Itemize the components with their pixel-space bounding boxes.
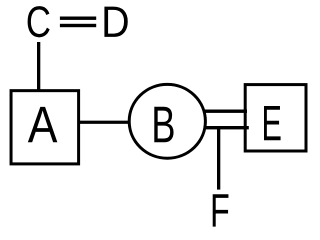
bond C-D top bar — [60, 17, 96, 20]
label E — [264, 106, 281, 140]
node E box — [245, 85, 306, 151]
wire A-B — [78, 121, 132, 124]
label D — [104, 7, 127, 37]
wire B-F — [217, 127, 220, 190]
wire B-E double bond top bar — [200, 110, 247, 113]
label B — [154, 107, 173, 143]
label A — [28, 107, 57, 142]
node B circle — [129, 84, 205, 158]
wire B-E double bond bottom bar — [200, 126, 249, 129]
label C — [28, 6, 50, 37]
node A box — [11, 91, 79, 164]
bond C-D bottom bar — [60, 24, 96, 27]
wire C-A — [37, 42, 40, 91]
label F — [213, 194, 229, 226]
